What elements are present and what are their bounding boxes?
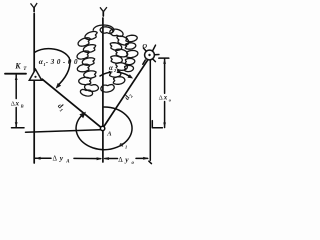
svg-text:Δ: Δ xyxy=(11,101,15,108)
tick under K_T xyxy=(5,73,26,75)
dx_O up arrow xyxy=(163,59,166,64)
vertical line below O xyxy=(149,60,152,163)
arc arrowhead at B xyxy=(56,83,62,89)
dimension line dy_O xyxy=(105,157,148,159)
dx_O bottom tick xyxy=(152,121,162,128)
big circle arrowhead xyxy=(79,112,86,119)
dx_B up arrow xyxy=(15,75,18,80)
cloud puff V4 xyxy=(125,58,135,64)
cloud puff R7 xyxy=(116,63,128,71)
cloud puff R3 xyxy=(117,36,129,45)
cloud puff L6 xyxy=(77,64,89,72)
dimension line dx_O xyxy=(164,58,166,127)
point O sun symbol xyxy=(145,50,155,60)
svg-text:-30-00: -30-00 xyxy=(46,58,80,66)
line d2 from A to O xyxy=(104,60,148,126)
dy_A right arrow xyxy=(97,157,103,160)
dy_O right arrow xyxy=(143,157,149,160)
svg-text:x: x xyxy=(15,100,20,108)
dimension line dy_A xyxy=(35,157,101,159)
cloud puff L7 xyxy=(84,71,96,78)
svg-text:Δ: Δ xyxy=(118,156,123,164)
line d1 from B to A xyxy=(42,79,101,127)
triangle point B xyxy=(29,69,41,80)
O rays xyxy=(143,45,159,64)
label d1 xyxy=(55,101,67,114)
svg-text:y: y xyxy=(59,154,64,163)
dx_B down arrow xyxy=(15,122,18,127)
cloud puff R2 xyxy=(110,29,123,36)
cloud puff V3 xyxy=(126,50,138,57)
big angle circle at A (alpha1) xyxy=(76,107,132,150)
cloud puff R9 xyxy=(113,77,125,85)
horizontal reference line at A level xyxy=(26,130,101,132)
dx_O top tick xyxy=(159,57,169,59)
cloud puff L8 xyxy=(79,77,91,84)
cloud puff L3 xyxy=(83,45,95,53)
svg-text:T: T xyxy=(23,67,27,72)
cloud puff R4 xyxy=(110,43,122,51)
svg-text:x: x xyxy=(163,94,168,102)
right axis (north at A) xyxy=(102,12,104,162)
cloud puff V1 xyxy=(126,35,137,42)
svg-text:O: O xyxy=(142,43,147,50)
cloud puff R10 xyxy=(101,85,114,93)
svg-text:o: o xyxy=(169,98,172,103)
left axis (north at B) xyxy=(33,8,35,163)
label d2 xyxy=(122,91,135,103)
cloud puff V2 xyxy=(125,43,136,49)
svg-text:A: A xyxy=(65,160,70,165)
alpha2 arrowhead xyxy=(128,74,134,78)
cloud crown dome xyxy=(93,25,114,33)
point A donut xyxy=(100,126,104,130)
dy_A left arrow xyxy=(35,157,41,160)
svg-text:y: y xyxy=(124,155,129,164)
dx_O down arrow xyxy=(163,123,166,128)
dy_O left arrow xyxy=(103,157,109,160)
cloud puff R6 xyxy=(111,56,123,63)
svg-text:α: α xyxy=(109,64,113,72)
cloud puff R1 xyxy=(100,27,113,34)
cloud puff V5 xyxy=(125,65,134,71)
left axis arrowhead xyxy=(31,3,38,8)
dot in triangle xyxy=(34,76,36,78)
cloud puff L1 xyxy=(85,32,97,40)
cloud puff L10 xyxy=(80,89,92,96)
cloud puff L4 xyxy=(77,51,89,59)
cloud puff L5 xyxy=(82,58,94,65)
svg-text:A: A xyxy=(106,130,112,137)
svg-text:Δ: Δ xyxy=(53,155,58,163)
dimension line dx_B xyxy=(15,75,17,127)
dx_B bottom tick xyxy=(12,127,25,129)
cloud puff R5 xyxy=(115,49,127,57)
cloud puff L2 xyxy=(78,38,90,46)
svg-text:o: o xyxy=(132,161,135,166)
O center dot xyxy=(148,54,150,56)
svg-text:1: 1 xyxy=(125,144,127,149)
angle arc at B (alpha1 - 30-00) xyxy=(35,49,70,85)
cloud puff R8 xyxy=(109,70,121,77)
svg-text:B: B xyxy=(20,104,24,109)
angle arc alpha2 at A xyxy=(100,72,129,76)
svg-text:K: K xyxy=(14,62,21,71)
right axis arrowhead xyxy=(100,7,107,12)
cloud puff L9 xyxy=(85,84,99,91)
svg-text:Δ: Δ xyxy=(159,95,163,102)
